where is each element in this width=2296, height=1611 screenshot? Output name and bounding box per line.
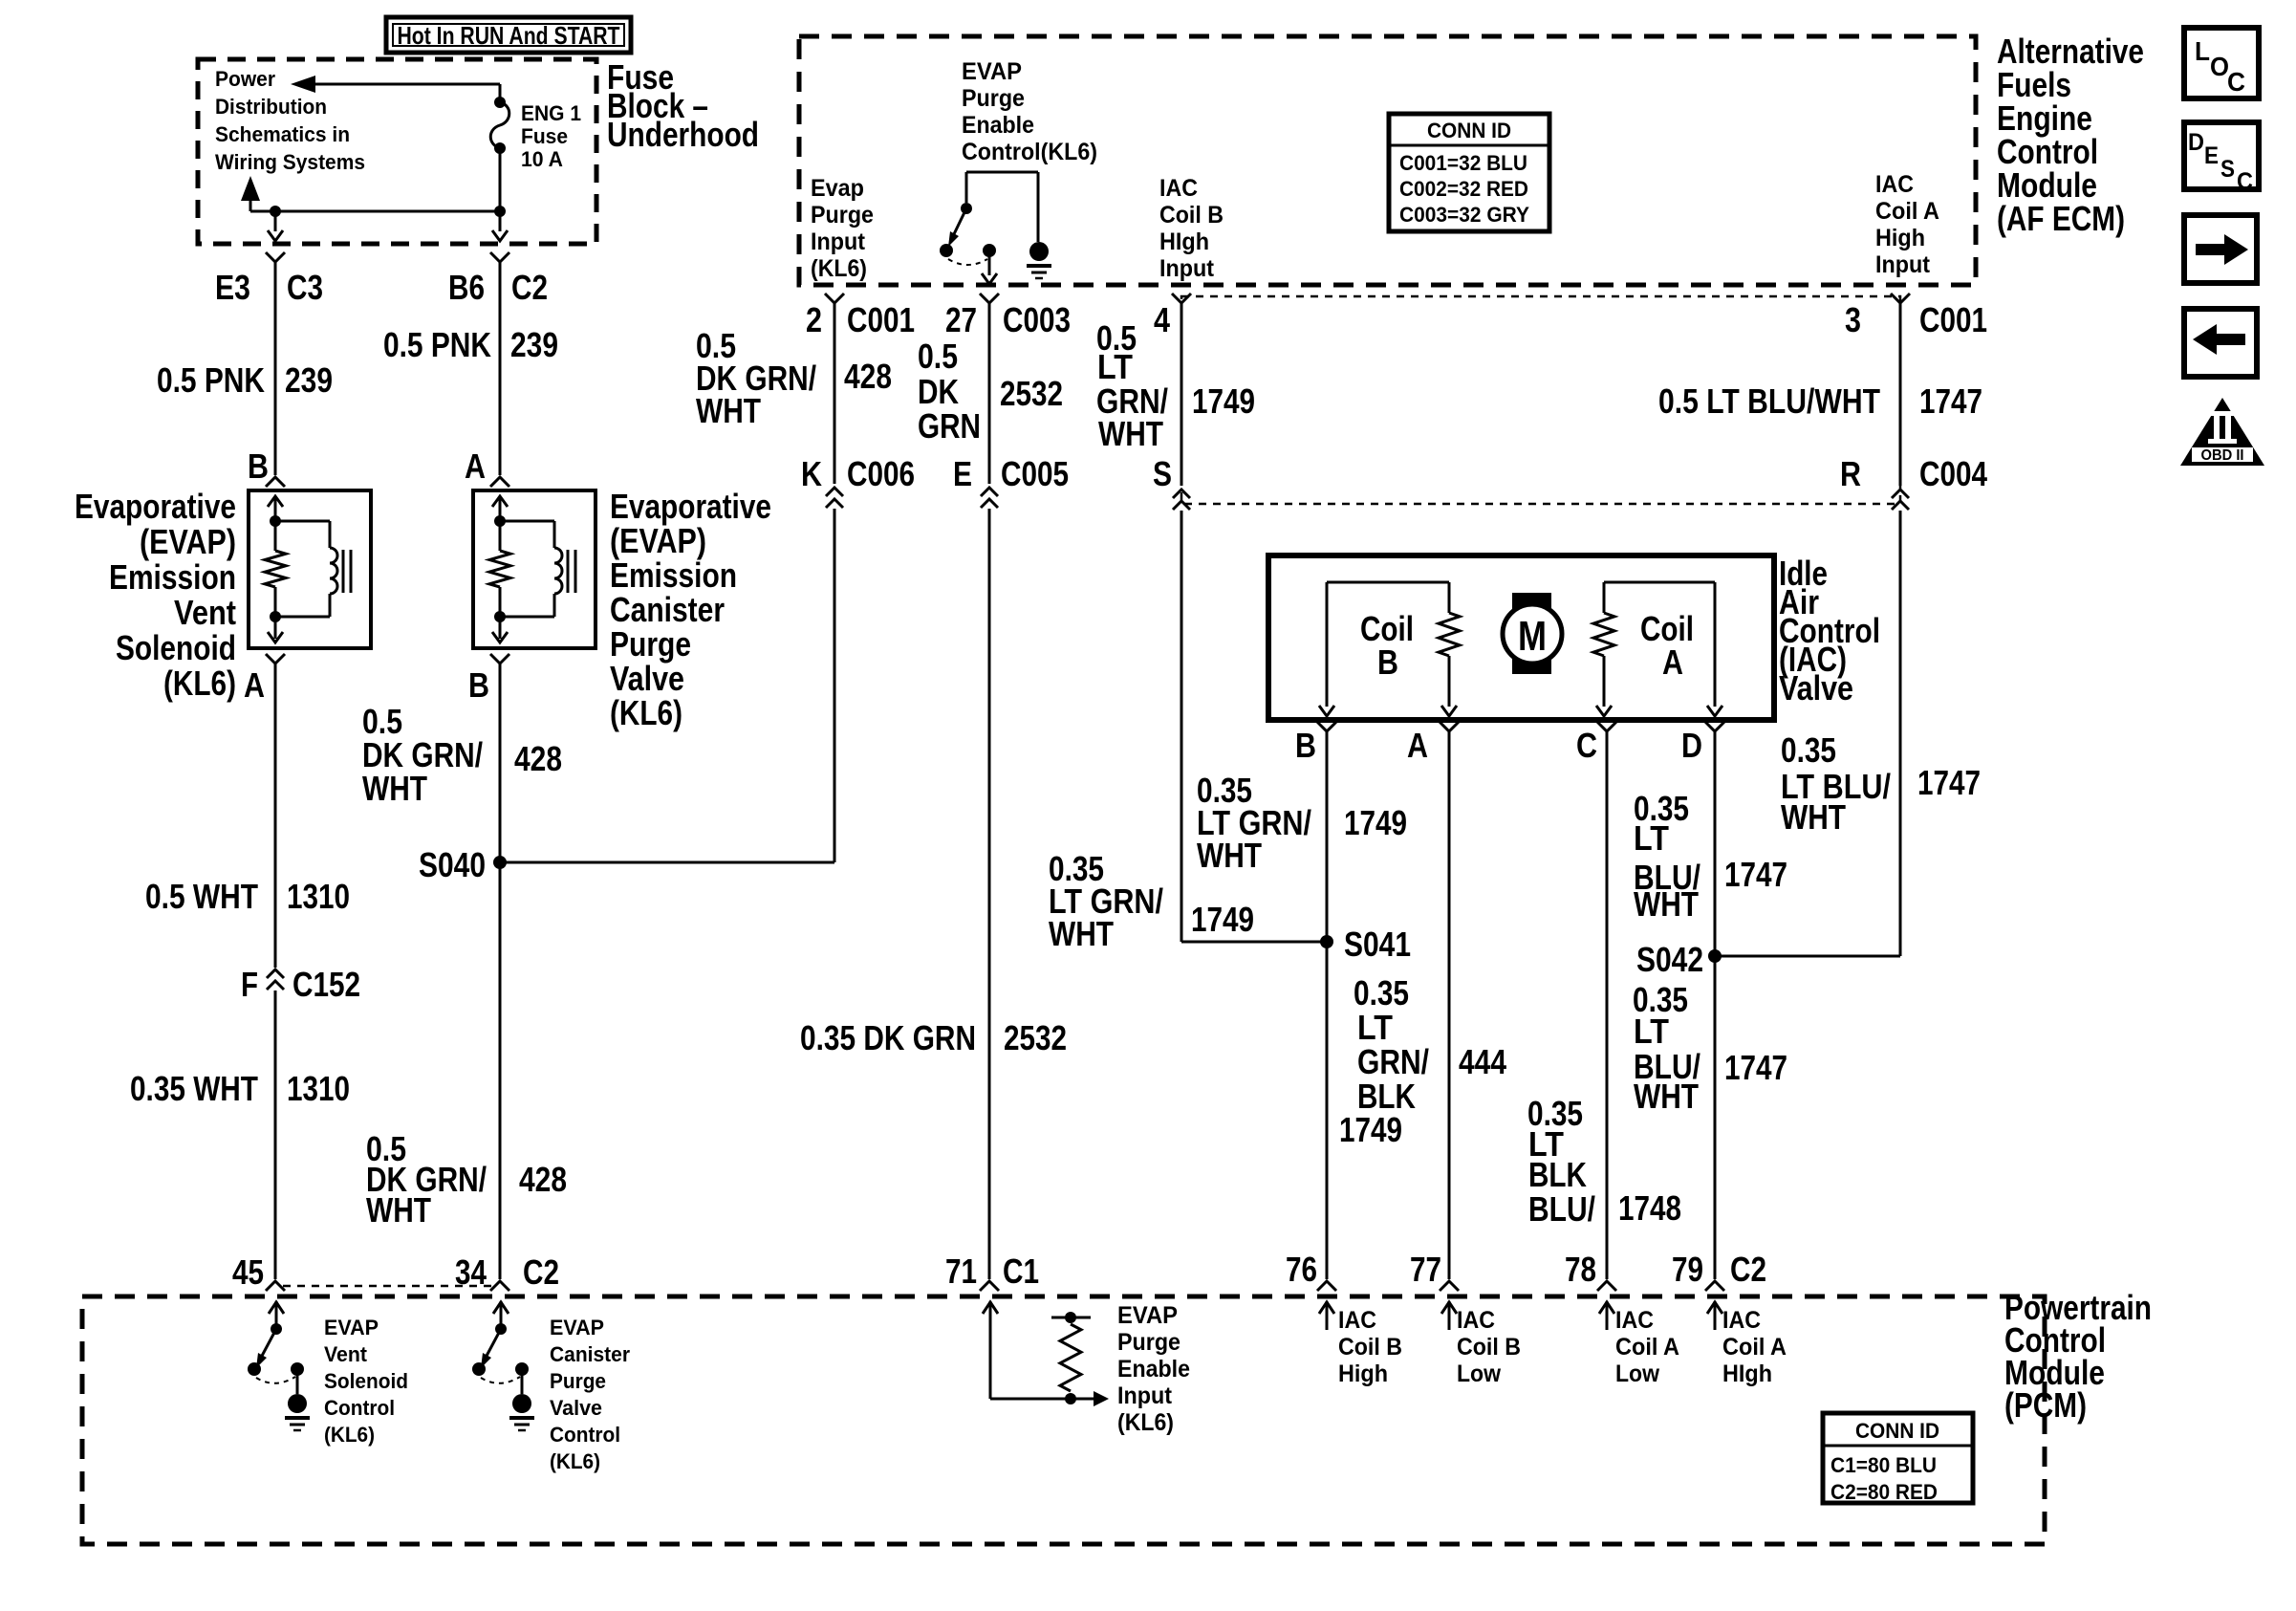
wire: 0.5 LT GRN/WHT 1749 (pin 4 to S041) — [1180, 303, 1183, 486]
svg-text:Emission: Emission — [610, 555, 737, 595]
svg-text:O: O — [2210, 52, 2229, 81]
svg-text:428: 428 — [514, 739, 562, 778]
svg-text:Evaporative: Evaporative — [610, 487, 771, 526]
svg-text:C001: C001 — [847, 300, 915, 339]
wire: 0.5 WHT 1310 — [274, 664, 277, 968]
svg-text:D: D — [2188, 129, 2204, 156]
svg-text:2532: 2532 — [1004, 1018, 1067, 1057]
svg-text:WHT: WHT — [1634, 1077, 1699, 1116]
svg-text:2: 2 — [806, 300, 822, 339]
IAC pin forks B A C D — [1317, 722, 1336, 731]
svg-text:1748: 1748 — [1618, 1188, 1681, 1228]
connector at PCM pin 45 — [266, 1281, 285, 1291]
svg-text:B: B — [248, 446, 269, 486]
svg-text:1747: 1747 — [1917, 763, 1981, 802]
inline connector K C006 — [826, 488, 843, 496]
svg-text:Enable: Enable — [962, 112, 1034, 139]
svg-text:K: K — [801, 454, 822, 493]
EVAP canister purge valve box — [473, 490, 596, 648]
connector 3 C001 — [1891, 294, 1910, 303]
splice S040 — [493, 856, 507, 869]
svg-text:Input: Input — [811, 229, 866, 255]
svg-text:0.5: 0.5 — [918, 337, 958, 376]
PCM entry arrow pin 45 — [269, 1302, 284, 1314]
svg-text:EVAP: EVAP — [324, 1316, 379, 1339]
svg-text:Valve: Valve — [610, 659, 684, 698]
connector at purge valve pin A — [490, 477, 509, 487]
svg-text:C005: C005 — [1001, 454, 1069, 493]
svg-text:C2: C2 — [511, 268, 548, 307]
fuse ENG 1 10A — [494, 97, 506, 108]
svg-text:E3: E3 — [215, 268, 250, 307]
svg-text:(KL6): (KL6) — [163, 664, 236, 703]
svg-text:C004: C004 — [1919, 454, 1987, 493]
svg-text:(EVAP): (EVAP) — [610, 521, 706, 560]
svg-text:Input: Input — [1875, 251, 1931, 278]
svg-text:(EVAP): (EVAP) — [140, 522, 236, 561]
svg-text:C001: C001 — [1919, 300, 1987, 339]
EVAP vent solenoid control driver switch — [271, 1323, 282, 1335]
svg-text:LT: LT — [1357, 1008, 1393, 1047]
svg-text:A: A — [1662, 642, 1683, 682]
svg-text:Distribution: Distribution — [215, 95, 327, 119]
svg-text:WHT: WHT — [1049, 914, 1114, 953]
connector at purge valve pin B — [490, 654, 509, 664]
svg-text:E: E — [2204, 142, 2219, 169]
junction dots on bus — [270, 206, 281, 217]
svg-text:C006: C006 — [847, 454, 915, 493]
svg-text:BLU/: BLU/ — [1528, 1189, 1595, 1229]
ground inside AF ECM — [1029, 242, 1049, 261]
svg-text:E: E — [953, 454, 972, 493]
icon: forward arrow box — [2184, 215, 2257, 283]
purge valve internals: resistor and coil — [492, 496, 508, 507]
splice S042 — [1708, 949, 1722, 963]
svg-text:Purge: Purge — [962, 85, 1025, 112]
svg-text:Emission: Emission — [109, 557, 236, 597]
svg-text:M: M — [1518, 613, 1547, 660]
svg-text:Low: Low — [1615, 1361, 1659, 1387]
svg-text:C: C — [1576, 726, 1597, 765]
svg-text:(KL6): (KL6) — [811, 255, 867, 282]
svg-text:WHT: WHT — [1197, 836, 1262, 875]
svg-text:HIgh: HIgh — [1722, 1361, 1772, 1387]
svg-text:EVAP: EVAP — [550, 1316, 604, 1339]
svg-text:Underhood: Underhood — [607, 115, 759, 154]
EVAP purge enable input resistor — [989, 1329, 992, 1399]
svg-text:(AF ECM): (AF ECM) — [1997, 199, 2125, 238]
svg-text:45: 45 — [232, 1252, 264, 1292]
svg-text:Coil B: Coil B — [1159, 202, 1224, 229]
svg-text:C003: C003 — [1003, 300, 1071, 339]
svg-text:3: 3 — [1845, 300, 1861, 339]
svg-text:S: S — [1153, 454, 1172, 493]
svg-text:Vent: Vent — [324, 1342, 368, 1366]
svg-text:Control: Control — [324, 1396, 395, 1420]
svg-text:4: 4 — [1154, 300, 1170, 339]
wire: 0.5 LT BLU/WHT 1747 (pin 3 to S042) — [1899, 303, 1902, 486]
svg-text:EVAP: EVAP — [1117, 1302, 1178, 1329]
svg-text:IAC: IAC — [1338, 1307, 1376, 1334]
IAC coil A loop — [1604, 581, 1715, 584]
svg-text:(PCM): (PCM) — [2004, 1385, 2087, 1425]
svg-text:GRN/: GRN/ — [1357, 1042, 1429, 1081]
svg-text:239: 239 — [285, 360, 333, 400]
svg-text:C1=80 BLU: C1=80 BLU — [1830, 1453, 1937, 1477]
svg-text:Hot In RUN And START: Hot In RUN And START — [398, 21, 620, 50]
svg-text:High: High — [1338, 1361, 1388, 1387]
icon: LOC box — [2184, 28, 2259, 98]
svg-text:1749: 1749 — [1191, 900, 1254, 939]
connector E3/C3 — [266, 252, 285, 262]
svg-text:Solenoid: Solenoid — [324, 1369, 408, 1393]
inline connector E C005 — [981, 488, 998, 496]
svg-text:IAC: IAC — [1722, 1307, 1761, 1334]
svg-text:Coil B: Coil B — [1457, 1334, 1521, 1361]
PCM entry arrows pins 76-79 — [1319, 1302, 1334, 1314]
svg-text:1749: 1749 — [1344, 803, 1407, 842]
CONN ID table (AF ECM) — [1389, 114, 1549, 231]
wire: fuse to bus — [499, 148, 502, 211]
svg-text:IAC: IAC — [1615, 1307, 1654, 1334]
svg-text:(KL6): (KL6) — [324, 1423, 375, 1447]
svg-text:0.35: 0.35 — [1781, 730, 1836, 770]
PCM entry arrow pin 34 — [493, 1302, 509, 1314]
svg-text:IAC: IAC — [1457, 1307, 1495, 1334]
IAC valve box — [1268, 555, 1774, 720]
wire: S040 to C006 drop — [500, 861, 834, 864]
svg-text:1749: 1749 — [1339, 1110, 1402, 1149]
IAC coil B loop — [1327, 581, 1449, 584]
connector at PCM pin 71 — [980, 1281, 999, 1291]
svg-text:0.35 WHT: 0.35 WHT — [130, 1069, 258, 1108]
AF ECM dashed box — [799, 36, 1976, 285]
svg-text:78: 78 — [1565, 1250, 1596, 1289]
CONN ID table (PCM) — [1823, 1413, 1973, 1503]
svg-text:D: D — [1681, 726, 1702, 765]
svg-text:Solenoid: Solenoid — [116, 628, 236, 667]
svg-text:Valve: Valve — [1779, 668, 1853, 708]
svg-text:LT: LT — [1097, 347, 1133, 386]
svg-text:EVAP: EVAP — [962, 58, 1022, 85]
svg-text:Control(KL6): Control(KL6) — [962, 139, 1097, 165]
svg-text:LT: LT — [1634, 818, 1669, 858]
svg-text:1749: 1749 — [1192, 381, 1255, 421]
connector 27 C003 — [980, 294, 999, 303]
svg-text:0.5 WHT: 0.5 WHT — [145, 877, 258, 916]
svg-text:Coil B: Coil B — [1338, 1334, 1402, 1361]
icon: OBD II triangle — [2180, 398, 2264, 466]
inline connector R C004 — [1892, 490, 1909, 498]
svg-text:Schematics in: Schematics in — [215, 122, 350, 146]
EVAP canister purge valve control driver switch — [495, 1323, 507, 1335]
icon: back arrow box — [2184, 309, 2257, 377]
vent solenoid internals: resistor and coil — [268, 496, 283, 507]
svg-text:C: C — [2237, 168, 2253, 195]
svg-text:428: 428 — [519, 1160, 567, 1199]
svg-text:10 A: 10 A — [521, 147, 563, 171]
svg-text:0.5 PNK: 0.5 PNK — [383, 325, 491, 364]
svg-text:76: 76 — [1286, 1250, 1317, 1289]
svg-text:BLK: BLK — [1528, 1155, 1587, 1194]
svg-text:0.35: 0.35 — [1354, 973, 1409, 1012]
svg-text:WHT: WHT — [1098, 414, 1163, 453]
svg-text:B: B — [468, 665, 489, 705]
connector pin 4 — [1172, 294, 1191, 303]
svg-text:428: 428 — [844, 357, 892, 396]
EVAP purge enable switch in AF ECM — [966, 171, 1038, 174]
svg-text:WHT: WHT — [366, 1190, 431, 1230]
svg-text:IAC: IAC — [1875, 171, 1914, 198]
svg-text:C152: C152 — [292, 965, 360, 1004]
svg-text:Canister: Canister — [610, 590, 725, 629]
svg-text:444: 444 — [1459, 1042, 1506, 1081]
connector at vent solenoid pin A — [266, 654, 285, 664]
svg-text:S: S — [2220, 156, 2235, 183]
svg-text:Wiring Systems: Wiring Systems — [215, 150, 365, 174]
svg-text:A: A — [1407, 726, 1428, 765]
svg-text:C3: C3 — [287, 268, 323, 307]
svg-text:B6: B6 — [448, 268, 485, 307]
svg-text:B: B — [1377, 642, 1398, 682]
svg-text:C003=32 GRY: C003=32 GRY — [1399, 203, 1529, 227]
svg-text:Evap: Evap — [811, 175, 864, 202]
svg-text:0.5 LT BLU/WHT: 0.5 LT BLU/WHT — [1658, 381, 1880, 421]
svg-text:Coil A: Coil A — [1875, 198, 1939, 225]
wire: drop to B6 — [499, 147, 502, 150]
connector at PCM pin 34 — [490, 1281, 509, 1291]
svg-text:WHT: WHT — [1634, 884, 1699, 924]
svg-text:2532: 2532 — [1000, 374, 1063, 413]
svg-text:Purge: Purge — [1117, 1329, 1180, 1356]
svg-text:Purge: Purge — [610, 624, 691, 664]
svg-text:C1: C1 — [1003, 1252, 1039, 1291]
wire: 0.35 DK GRN 2532 to PCM 71 — [988, 509, 991, 1279]
svg-text:A: A — [244, 665, 265, 705]
svg-text:1747: 1747 — [1919, 381, 1982, 421]
svg-text:Vent: Vent — [174, 593, 236, 632]
connector at PCM pin 76 — [1317, 1281, 1336, 1291]
wire: power distribution bus — [250, 210, 500, 213]
svg-text:C2: C2 — [523, 1252, 559, 1292]
svg-text:Coil A: Coil A — [1722, 1334, 1787, 1361]
connector B6/C2 — [490, 252, 509, 262]
svg-text:Coil A: Coil A — [1615, 1334, 1679, 1361]
svg-text:Enable: Enable — [1117, 1356, 1190, 1382]
fuse block - underhood dashed box — [198, 59, 596, 244]
svg-text:77: 77 — [1410, 1250, 1441, 1289]
wire: 0.35 WHT 1310 — [274, 991, 277, 1279]
svg-text:R: R — [1840, 454, 1861, 493]
svg-text:LT: LT — [1634, 1012, 1669, 1051]
wire: drop to E3 — [274, 211, 277, 231]
svg-text:Input: Input — [1117, 1382, 1173, 1409]
svg-text:Input: Input — [1159, 255, 1215, 282]
IAC motor M — [1512, 593, 1551, 674]
svg-text:C: C — [2227, 67, 2245, 97]
wire: 0.5 PNK 239 right — [499, 262, 502, 475]
svg-text:WHT: WHT — [1781, 797, 1846, 837]
svg-text:CONN ID: CONN ID — [1855, 1419, 1939, 1443]
svg-text:GRN: GRN — [918, 406, 981, 446]
svg-text:L: L — [2195, 36, 2210, 66]
svg-text:1747: 1747 — [1724, 855, 1787, 894]
svg-text:1747: 1747 — [1724, 1048, 1787, 1087]
wire: 0.5 DK GRN/WHT 428 (C006) — [834, 303, 836, 484]
inline connector S — [1173, 490, 1190, 498]
connector 2 C001 — [825, 294, 844, 303]
header box: Hot In RUN And START — [386, 17, 631, 53]
svg-text:Power: Power — [215, 67, 275, 91]
svg-text:0.5 PNK: 0.5 PNK — [157, 360, 265, 400]
inline connector F C152 — [267, 969, 284, 978]
svg-text:Control: Control — [550, 1423, 620, 1447]
svg-text:CONN ID: CONN ID — [1427, 119, 1511, 142]
svg-text:B: B — [1295, 726, 1316, 765]
wire: fuse feed top — [299, 83, 500, 86]
svg-text:C001=32 BLU: C001=32 BLU — [1399, 151, 1527, 175]
svg-text:Valve: Valve — [550, 1396, 602, 1420]
svg-text:Purge: Purge — [550, 1369, 606, 1393]
splice S041 — [1320, 935, 1333, 948]
svg-text:S040: S040 — [419, 845, 486, 884]
connector at vent solenoid pin B — [266, 477, 285, 487]
wire: 0.5 DK GRN/WHT 428 upper — [499, 664, 502, 1279]
PCM entry arrow pin 71 — [983, 1302, 998, 1314]
svg-text:WHT: WHT — [362, 769, 427, 808]
svg-text:WHT: WHT — [696, 391, 761, 430]
thin dashed connector line pins 45-34 — [283, 1285, 493, 1288]
svg-text:1310: 1310 — [287, 877, 350, 916]
svg-text:S042: S042 — [1636, 940, 1703, 979]
wire: 0.5 DK GRN 2532 (C005) — [988, 303, 991, 484]
svg-text:0.35 DK GRN: 0.35 DK GRN — [800, 1018, 976, 1057]
svg-text:DK: DK — [918, 372, 959, 411]
wire: IAC coil B low (444) — [1448, 731, 1451, 1279]
svg-text:C002=32 RED: C002=32 RED — [1399, 177, 1528, 201]
svg-text:71: 71 — [945, 1252, 977, 1291]
svg-text:Canister: Canister — [550, 1342, 630, 1366]
svg-text:239: 239 — [510, 325, 558, 364]
svg-text:1310: 1310 — [287, 1069, 350, 1108]
wire: IAC coil B high (1749) — [1326, 731, 1329, 1279]
svg-text:C2: C2 — [1730, 1250, 1766, 1289]
svg-text:Purge: Purge — [811, 202, 874, 229]
svg-text:IAC: IAC — [1159, 175, 1198, 202]
svg-text:ENG 1: ENG 1 — [521, 101, 581, 125]
EVAP emission vent solenoid box — [249, 490, 371, 648]
svg-text:C2=80 RED: C2=80 RED — [1830, 1480, 1938, 1504]
svg-text:Low: Low — [1457, 1361, 1501, 1387]
svg-text:High: High — [1875, 225, 1925, 251]
svg-text:79: 79 — [1672, 1250, 1703, 1289]
svg-text:OBD II: OBD II — [2201, 447, 2244, 464]
svg-text:F: F — [241, 965, 258, 1004]
svg-text:(KL6): (KL6) — [550, 1449, 600, 1473]
svg-text:27: 27 — [945, 300, 977, 339]
wire: 0.5 PNK 239 left — [274, 262, 277, 475]
svg-text:Evaporative: Evaporative — [75, 487, 236, 526]
wire: IAC coil A low (1748) — [1606, 731, 1609, 1279]
svg-text:(KL6): (KL6) — [610, 693, 682, 732]
svg-text:A: A — [465, 446, 486, 486]
svg-text:Fuse: Fuse — [521, 124, 568, 148]
svg-text:S041: S041 — [1344, 925, 1411, 964]
svg-text:HIgh: HIgh — [1159, 229, 1209, 255]
PCM dashed box — [82, 1296, 2045, 1544]
thin dashed harness box C001-C004 — [1181, 296, 1900, 504]
svg-text:(KL6): (KL6) — [1117, 1409, 1174, 1436]
icon: DESC box — [2184, 122, 2259, 189]
wire: IAC coil A high (1747) — [1714, 731, 1717, 1279]
